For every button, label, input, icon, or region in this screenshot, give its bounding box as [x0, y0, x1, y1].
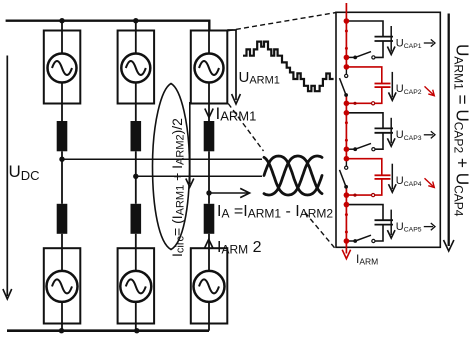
switch S4 (open, insert state): [345, 159, 347, 166]
inductor: upper arm L1u: [57, 121, 68, 151]
wire: phase 3 lower vertical: [208, 234, 210, 272]
wire: SM3 capacitor branch top: [346, 113, 383, 129]
source symbol: upper arm A3: [195, 54, 224, 83]
wire: phase 2 mid vertical: [135, 151, 137, 204]
wire: arm bus (red) middle segment: [345, 95, 347, 159]
wire: dashed callout bottom (upper segment): [228, 104, 263, 152]
wire: SM3 capacitor branch bottom: [375, 133, 383, 149]
inductor: lower arm L3l: [204, 204, 215, 234]
node: SM3 bus dots: [344, 110, 350, 116]
inductor: lower arm L2l: [131, 204, 142, 234]
svg-text:IA =IARM1 - IARM2: IA =IARM1 - IARM2: [217, 203, 333, 221]
wire: SM2 capacitor branch bottom (red): [346, 87, 381, 103]
arm box: lower arm A3: [191, 248, 228, 323]
arm box: upper arm A3: [191, 31, 228, 104]
wire: dashed callout bottom (lower segment): [305, 213, 336, 250]
capacitor C5: [375, 219, 394, 221]
arrow: UCAP3 measurement: [390, 118, 392, 144]
wire: phase 2 lower vertical: [135, 234, 137, 272]
arm box: lower arm A2: [118, 248, 155, 323]
source symbol: upper arm A2: [121, 54, 150, 83]
ellipse: circulating current loop: [153, 84, 190, 250]
capacitor C3: [375, 127, 394, 129]
arrow glyph: UCAP5 steady: [424, 226, 433, 228]
source symbol: lower arm A3: [194, 271, 225, 302]
arrow: UCAP1 measurement: [390, 26, 392, 52]
wire: phase line 1: [62, 158, 262, 160]
machine: three-phase AC symbol: [264, 156, 322, 195]
inductor: upper arm L2u: [131, 121, 142, 151]
arrow: IARM (red): [342, 250, 350, 259]
wire: top DC bus rail: [6, 21, 210, 31]
arrow: UARM1 sum bracket: [448, 14, 450, 247]
wire: arm bus (red) lower segment: [345, 187, 347, 254]
wire: phase line 2: [136, 175, 262, 177]
box: submodule detail panel: [336, 12, 440, 247]
switch S5 (open, bypass state): [372, 239, 375, 242]
arm box: lower arm A1: [44, 248, 81, 323]
arrow: IARM1 current direction: [205, 109, 213, 118]
arrow: UCAP4 measurement: [391, 164, 393, 190]
switch S1 (open, bypass state): [372, 56, 375, 59]
capacitor C1: [375, 36, 394, 38]
arrow: UCAP2 measurement: [391, 72, 393, 98]
wire: phase 1 lower vertical: [61, 234, 63, 272]
switch S3 (open, bypass state): [372, 148, 375, 151]
node: top bus junction phase 1: [59, 18, 64, 23]
wire: phase 3 mid vertical: [208, 151, 210, 204]
wire: phase 1 mid vertical: [61, 151, 63, 204]
wire: arm bus (red) top segment: [345, 3, 347, 67]
wire: SM4 capacitor branch bottom (red): [346, 179, 381, 195]
arrow: UARM1 measurement: [227, 30, 236, 100]
capacitor C4 (red, inserted): [375, 174, 391, 176]
node: bottom bus junction phase 1: [59, 328, 64, 333]
switch S2 (open, insert state): [345, 67, 347, 74]
wire: bottom DC bus rail: [7, 329, 209, 332]
node: SM2 bus dots (red): [344, 64, 350, 70]
wire: SM5 capacitor branch bottom: [375, 225, 383, 241]
arm box: upper arm A2: [118, 31, 155, 104]
wire: SM2 capacitor branch top (red): [346, 67, 381, 83]
arrow: UCAP5 measurement: [390, 210, 392, 236]
arrow glyph: UCAP2 rising (red): [425, 86, 434, 95]
node: SM4 bus dots (red): [344, 156, 350, 162]
capacitor C2 (red, inserted): [375, 83, 391, 85]
source symbol: upper arm A1: [48, 54, 77, 83]
arrow glyph: UCAP3 steady: [424, 134, 433, 136]
svg-text:IARM 2: IARM 2: [217, 239, 262, 257]
wire: phase 3 leg vertical: [208, 31, 210, 54]
wire: SM5 capacitor branch top: [346, 205, 383, 221]
arrow: Icirc direction: [189, 102, 191, 184]
wire: dashed callout top: [228, 13, 336, 31]
wire: phase line 3 with IA arrow: [209, 192, 248, 194]
wire: SM4 capacitor branch top (red): [346, 159, 381, 175]
inductor: upper arm L3u: [204, 121, 215, 151]
arrow: UDC measurement: [6, 56, 8, 297]
source symbol: lower arm A2: [120, 271, 151, 302]
wire: SM1 capacitor branch top: [346, 21, 383, 37]
node: SM1 bus dots: [344, 18, 350, 24]
arm box: upper arm A1: [44, 31, 81, 104]
source symbol: lower arm A1: [47, 271, 78, 302]
inductor: lower arm L1l: [57, 204, 68, 234]
waveform: multilevel arm voltage: [243, 42, 334, 92]
node: bottom bus junction phase 2: [134, 328, 139, 333]
arrow glyph: UCAP1 steady: [424, 42, 433, 44]
wire: phase 2 leg vertical: [135, 21, 137, 54]
wire: SM1 capacitor branch bottom: [375, 41, 383, 57]
node: top bus junction phase 2: [133, 18, 138, 23]
arrow: IARM2 current direction: [205, 239, 213, 248]
wire: phase 1 leg vertical: [61, 21, 63, 54]
node: SM5 bus dots: [344, 202, 350, 208]
arrow glyph: UCAP4 rising (red): [425, 178, 434, 187]
